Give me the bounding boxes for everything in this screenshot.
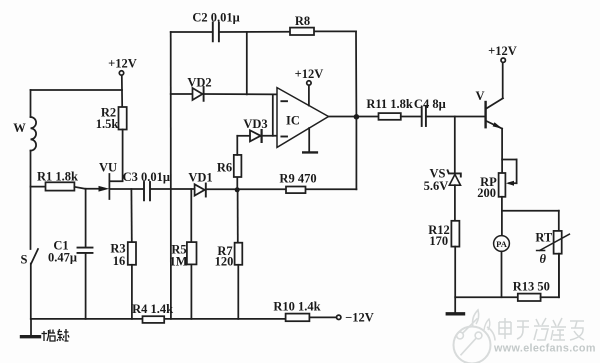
wire VU to C3 (110, 188, 144, 190)
watermark text dianzifashaoyou (499, 318, 584, 340)
svg-text:R11 1.8k: R11 1.8k (366, 97, 413, 111)
svg-text:IC: IC (286, 113, 300, 127)
capacitor C1 (78, 189, 93, 319)
resistor R11 (379, 113, 421, 120)
svg-text:R6: R6 (217, 160, 232, 174)
resistor R5 (187, 189, 197, 319)
wire arrow into VU (86, 186, 110, 192)
resistor R8 (290, 28, 314, 35)
svg-text:θ: θ (540, 252, 547, 266)
svg-text:S: S (21, 253, 28, 267)
svg-text:C4 8μ: C4 8μ (414, 97, 446, 111)
wire link inputs (272, 94, 274, 135)
diode VD1 (195, 184, 206, 197)
svg-text:W: W (13, 121, 26, 135)
resistor R4 (143, 316, 165, 323)
watermark logo (454, 310, 496, 363)
svg-text:−12V: −12V (345, 310, 374, 324)
resistor R9 (286, 187, 306, 194)
resistor R3 (128, 189, 136, 319)
bottom rail (31, 317, 337, 319)
node output junction (354, 114, 360, 120)
svg-text:RT: RT (535, 231, 553, 245)
diode VD2 (171, 87, 277, 101)
svg-text:R9 470: R9 470 (279, 171, 316, 185)
transistor V (486, 62, 503, 173)
svg-text:www.elecfans.com: www.elecfans.com (493, 343, 596, 355)
wire C2-right tap to VD2 line (246, 32, 248, 94)
svg-text:+12V: +12V (108, 57, 137, 71)
resistor R6 (234, 136, 242, 190)
svg-text:+12V: +12V (295, 67, 324, 81)
wire top-left W to R2 (31, 89, 123, 91)
svg-text:1.5k: 1.5k (96, 117, 119, 131)
varistor VU bar (108, 174, 110, 199)
switch S (31, 249, 38, 319)
wire VD1 to R9 to corner (206, 188, 357, 190)
resistor R7 (235, 190, 243, 319)
svg-text:R10 1.4k: R10 1.4k (273, 300, 320, 314)
node +12V terminal left (119, 71, 123, 75)
wire R2 to VU (110, 130, 123, 182)
capacitor C3 (144, 182, 194, 200)
node +12V terminal right (501, 58, 505, 62)
wire op-amp output (329, 116, 379, 118)
label chassis ground text (42, 329, 70, 341)
zener VS (448, 117, 461, 221)
svg-text:VD3: VD3 (243, 117, 267, 131)
wire output feedback down (355, 117, 357, 189)
inductor W (31, 90, 37, 249)
ground right (447, 312, 463, 315)
svg-text:+12V: +12V (488, 44, 517, 58)
node -12V terminal (337, 315, 341, 319)
resistor R10 (286, 314, 310, 322)
resistor R12 (451, 221, 459, 313)
svg-text:200: 200 (477, 186, 496, 200)
svg-text:120: 120 (215, 254, 234, 268)
svg-text:0.47μ: 0.47μ (48, 251, 77, 265)
svg-text:R13 50: R13 50 (513, 280, 550, 294)
node junction dot R6/R7 (235, 187, 240, 192)
node +12V terminal IC (307, 81, 311, 106)
ground IC negative pin (303, 128, 317, 152)
wire RP to PA and RT branch (502, 197, 559, 236)
resistor R13 (518, 254, 559, 301)
svg-text:R8: R8 (295, 14, 310, 28)
svg-text:V: V (475, 89, 484, 103)
diode VD3 (237, 130, 277, 142)
op-amp IC (277, 88, 329, 148)
potentiometer RP (499, 160, 517, 197)
svg-text:5.6V: 5.6V (424, 179, 449, 193)
resistor R1 (31, 182, 86, 190)
svg-text:C2 0.01μ: C2 0.01μ (192, 10, 239, 24)
svg-text:16: 16 (113, 254, 126, 268)
svg-text:R1 1.8k: R1 1.8k (37, 169, 78, 183)
svg-text:PA: PA (496, 239, 508, 249)
thermistor RT (537, 231, 570, 297)
svg-text:VD1: VD1 (188, 170, 212, 184)
svg-text:R4 1.4k: R4 1.4k (132, 302, 173, 316)
wire vertical C2-left / VD2 / rail (170, 32, 172, 319)
svg-text:170: 170 (429, 234, 448, 248)
meter PA (494, 236, 510, 298)
capacitor C2 (213, 23, 219, 42)
svg-text:C3 0.01μ: C3 0.01μ (123, 170, 170, 184)
ground chassis left (22, 319, 40, 337)
wire bottom-right node (455, 296, 518, 298)
capacitor C4 (422, 107, 485, 126)
wire C2 top feedback (171, 31, 357, 117)
resistor R2 (119, 107, 127, 130)
svg-text:VU: VU (99, 161, 117, 175)
svg-text:1M: 1M (169, 254, 187, 268)
svg-text:VD2: VD2 (187, 76, 211, 90)
